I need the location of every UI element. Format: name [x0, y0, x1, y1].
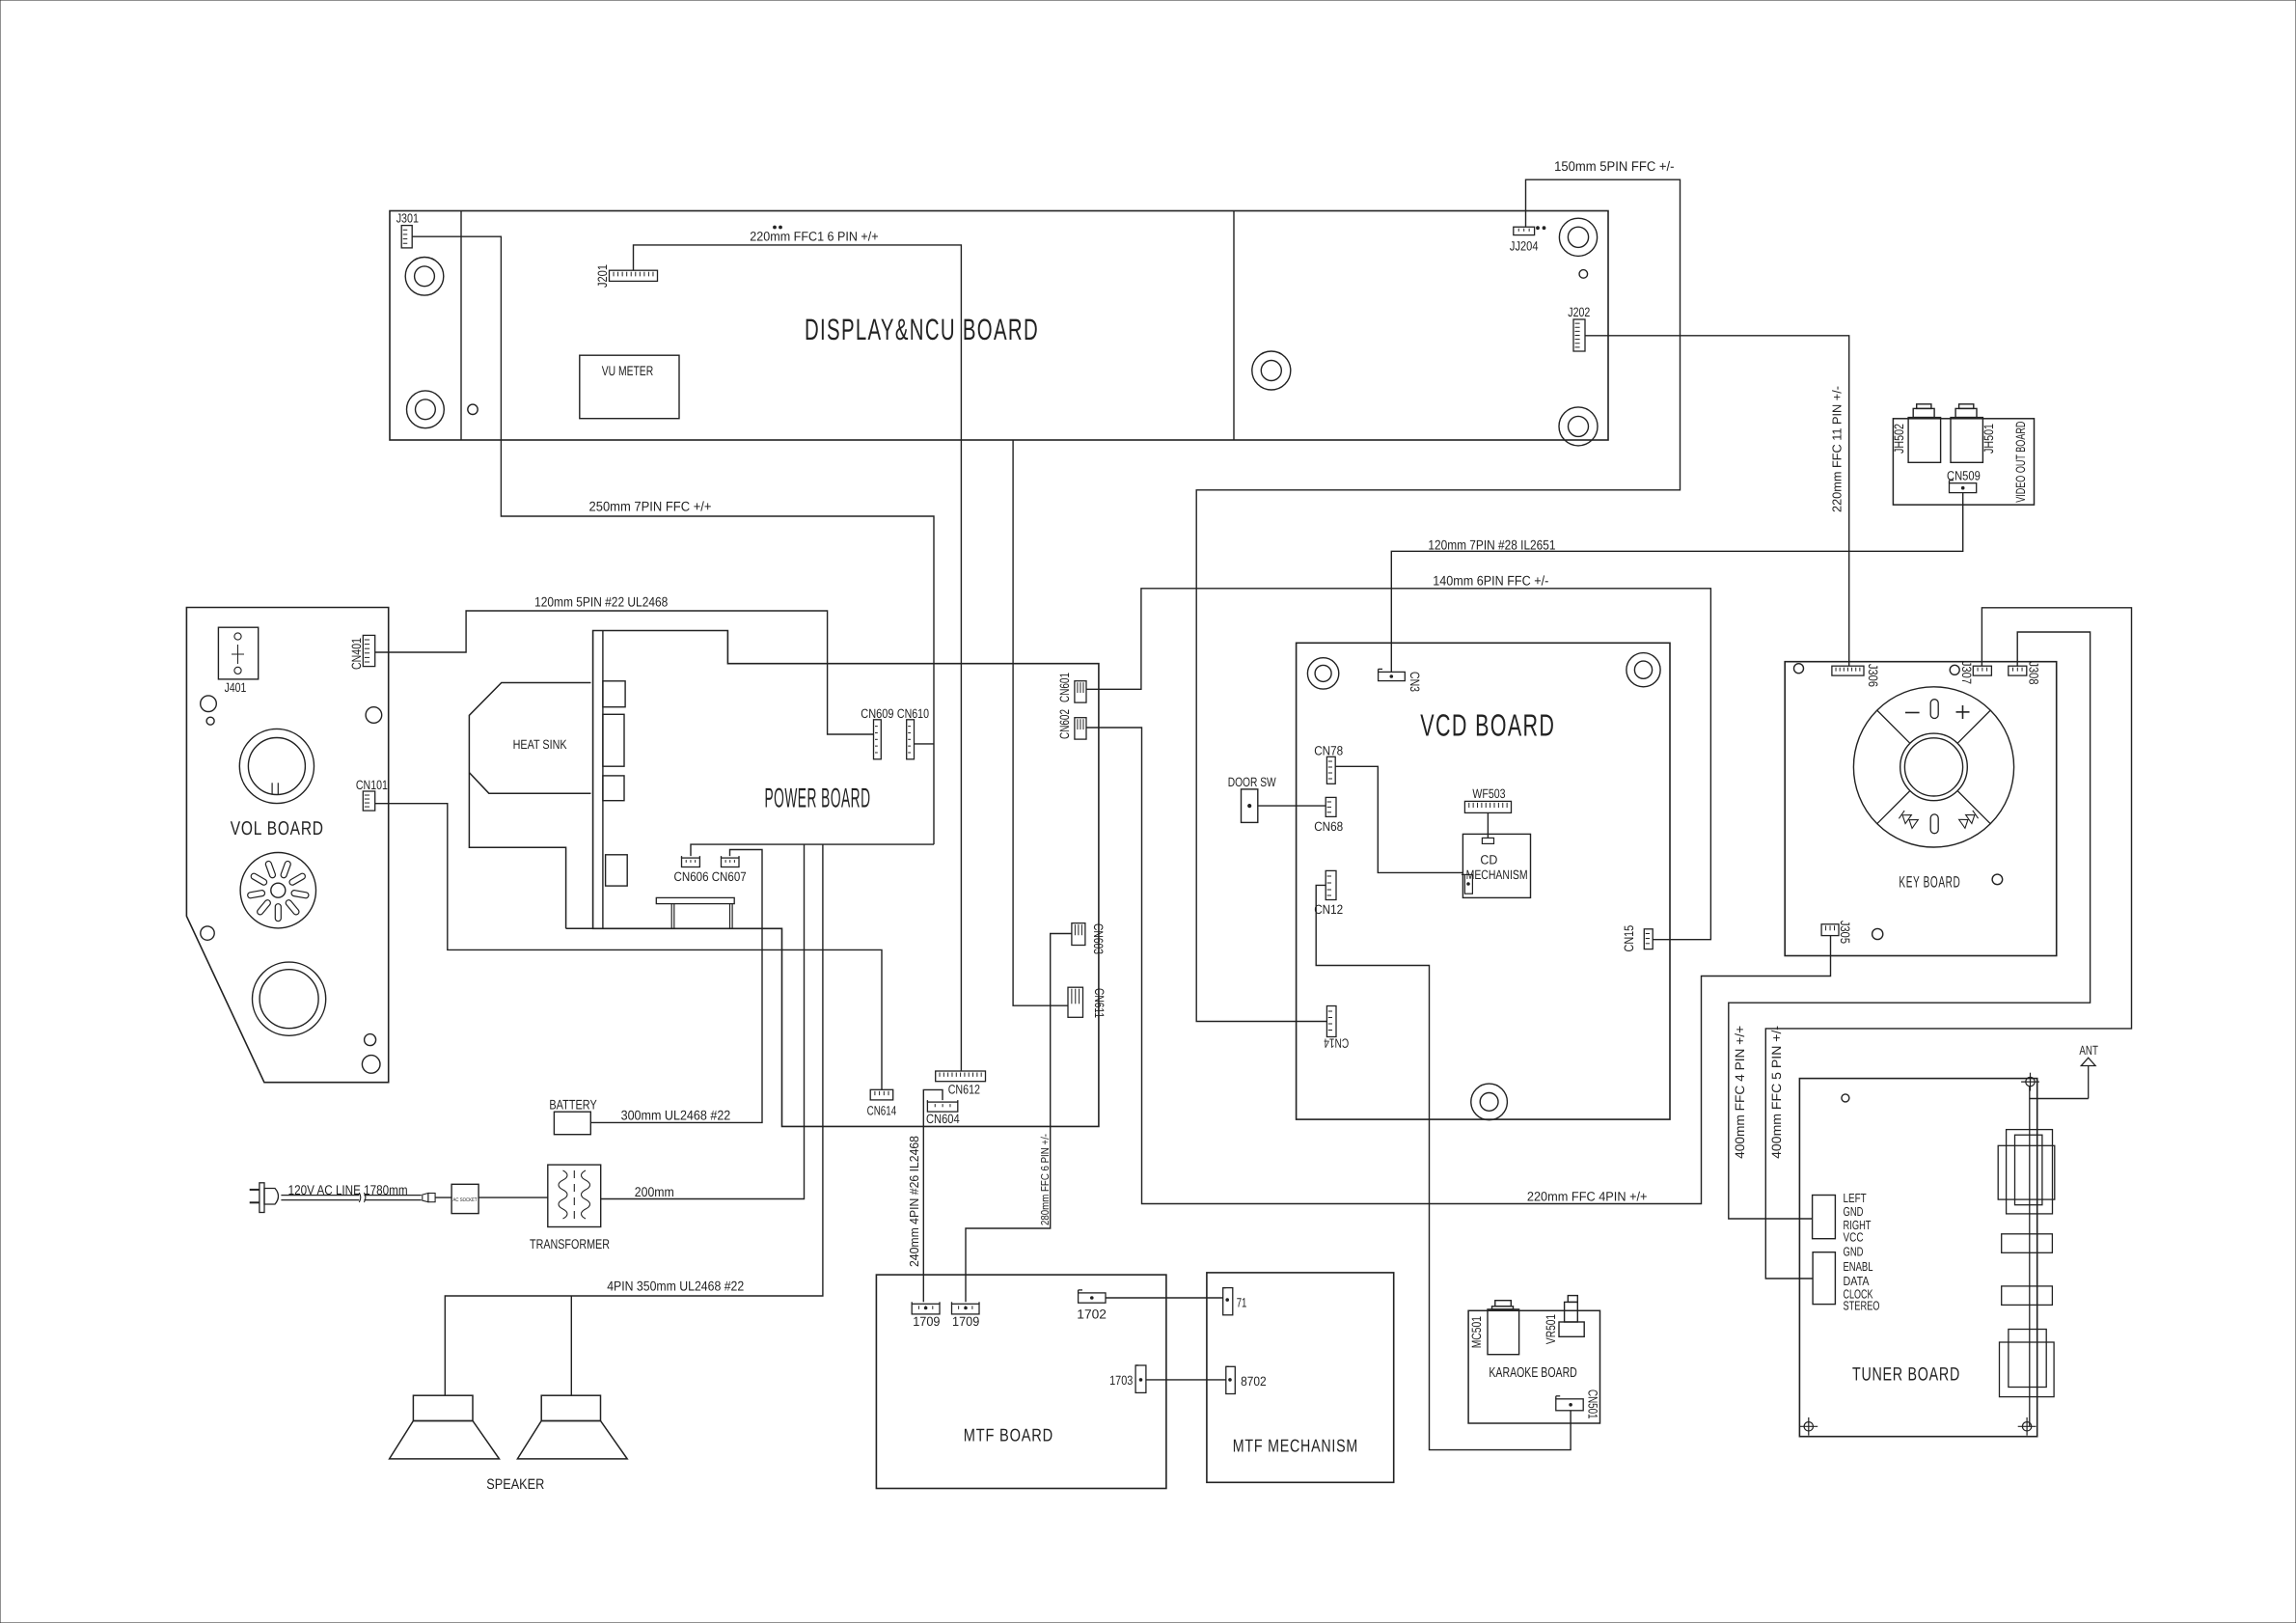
pad 4 (POWER BOARD left): [606, 855, 628, 886]
svg-text:J401: J401: [225, 680, 247, 695]
wire ANT - tuner rail: [2030, 1098, 2089, 1100]
hole (VOL bottom-right 1): [365, 1034, 376, 1046]
svg-text:CN501: CN501: [1586, 1389, 1600, 1419]
mounting hole (DISPLAY&NCU top-right): [1559, 218, 1597, 256]
svg-text:CN612: CN612: [948, 1083, 980, 1097]
wire J301 - CN610/CN606 (250mm 7PIN FFC +/+): [412, 236, 934, 844]
mounting hole (VCD bottom): [1471, 1084, 1508, 1120]
connector CN604: [927, 1102, 957, 1112]
svg-text:CN12: CN12: [1314, 902, 1343, 917]
key dial minus symbol: [1905, 712, 1920, 714]
board outline: VOL BOARD: [186, 608, 388, 1083]
svg-text:GND: GND: [1844, 1204, 1864, 1219]
svg-text:CN609: CN609: [861, 706, 893, 721]
wire CN602 - J305 (220mm FFC 4PIN +/+): [1086, 728, 1831, 1204]
svg-text:STEREO: STEREO: [1844, 1299, 1880, 1313]
svg-text:MECHANISM: MECHANISM: [1466, 867, 1528, 882]
svg-text:VOL BOARD: VOL BOARD: [231, 818, 324, 839]
svg-text:200mm: 200mm: [635, 1184, 674, 1199]
wire J308 - tuner box1 (400mm FFC 4 PIN +/+): [1729, 632, 2091, 1219]
hole small (DISPLAY&NCU right): [1579, 270, 1588, 279]
connector CN15: [1644, 929, 1653, 949]
AC SOCKET box: [451, 1184, 478, 1213]
svg-text:CD: CD: [1480, 853, 1497, 867]
wire speakers (4PIN 350mm UL2468 #22): [445, 844, 823, 1395]
transformer box: [548, 1165, 601, 1226]
connector CN601: [1075, 681, 1086, 702]
hole (VOL bottom-left): [201, 926, 214, 940]
tuner module bar 2: [2002, 1286, 2053, 1306]
wire CN3 - CN509 (120mm 7PIN #28 IL2651): [1391, 493, 1962, 673]
svg-text:CN101: CN101: [356, 778, 388, 792]
hole (KEY near J307): [1950, 665, 1959, 674]
connector CN501: [1556, 1399, 1583, 1411]
svg-text:CN606 CN607: CN606 CN607: [674, 869, 747, 884]
svg-text:TUNER BOARD: TUNER BOARD: [1852, 1364, 1960, 1386]
connector J307: [1973, 666, 1991, 675]
wire AC SOCKET - transformer: [478, 1197, 548, 1198]
box VU METER: [580, 355, 679, 419]
svg-text:LEFT: LEFT: [1844, 1191, 1867, 1205]
connector 1709 (second): [952, 1304, 980, 1314]
key dial top slot: [1930, 700, 1938, 719]
wire J307 - tuner box2 (400mm FFC 5 PIN +/-): [1765, 608, 2131, 1279]
svg-text:8702: 8702: [1241, 1374, 1267, 1389]
hole small (VOL left): [206, 717, 214, 725]
pin connector (CD MECHANISM left): [1464, 874, 1472, 894]
svg-text:150mm 5PIN FFC +/-: 150mm 5PIN FFC +/-: [1554, 158, 1675, 174]
wire J202 - J306 (220mm FFC 11 PIN +/-): [1585, 336, 1849, 666]
pad 2 (POWER BOARD left): [603, 714, 624, 766]
AC plug: [250, 1189, 260, 1191]
tuner connector box 2 (GND/ENABL/DATA/CLOCK/STEREO): [1813, 1252, 1835, 1305]
connector CN14: [1326, 1006, 1336, 1037]
svg-text:220mm FFC1 6 PIN +/+: 220mm FFC1 6 PIN +/+: [750, 230, 878, 244]
wire CN603 - 1709 second (280mm FFC 6 PIN +/-): [966, 934, 1072, 1303]
battery box: [554, 1112, 590, 1135]
svg-text:250mm 7PIN FFC +/+: 250mm 7PIN FFC +/+: [589, 499, 712, 514]
connector CN401: [363, 635, 374, 666]
svg-text:71: 71: [1237, 1296, 1247, 1310]
svg-text:VCC: VCC: [1844, 1230, 1864, 1245]
svg-text:ENABL: ENABL: [1844, 1259, 1873, 1274]
svg-text:CN601: CN601: [1057, 673, 1072, 702]
box CD MECHANISM: [1462, 834, 1530, 897]
connector J305: [1821, 924, 1839, 936]
connector J306: [1832, 666, 1864, 675]
jack MC501: [1488, 1309, 1519, 1355]
pad 1 (POWER BOARD left): [603, 681, 625, 707]
connector WF503: [1464, 801, 1511, 812]
hole (KEY right of text): [1992, 874, 2003, 885]
hole (VOL top-left): [201, 696, 217, 712]
svg-text:1709: 1709: [952, 1314, 979, 1329]
fiducial dots (DISPLAY&NCU): [1537, 227, 1540, 230]
svg-text:AC SOCKET: AC SOCKET: [453, 1197, 478, 1203]
wire node CN606 horizontal: [691, 844, 934, 856]
svg-text:VU METER: VU METER: [602, 363, 654, 378]
connector 1703: [1135, 1365, 1146, 1392]
jack JH501: [1951, 418, 1982, 463]
svg-text:280mm FFC 6 PIN +/-: 280mm FFC 6 PIN +/-: [1040, 1134, 1052, 1225]
svg-text:120mm 5PIN #22 UL2468: 120mm 5PIN #22 UL2468: [534, 594, 668, 610]
connector CN101: [363, 791, 374, 811]
svg-text:1702: 1702: [1077, 1307, 1107, 1321]
svg-text:WF503: WF503: [1472, 786, 1505, 801]
wire ferrule-AC SOCKET: [435, 1197, 451, 1198]
connector CN602: [1075, 718, 1086, 739]
connector 8702: [1226, 1366, 1236, 1393]
svg-text:MTF BOARD: MTF BOARD: [964, 1425, 1053, 1445]
svg-text:CN401: CN401: [349, 638, 364, 670]
svg-text:CN3: CN3: [1408, 672, 1422, 692]
svg-text:DOOR SW: DOOR SW: [1228, 775, 1276, 789]
connector 71: [1223, 1288, 1233, 1315]
transformer windings: [559, 1170, 567, 1219]
DOOR SW switch: [1242, 789, 1258, 823]
wire display board - CN611: [1013, 440, 1068, 1005]
connector CN609: [874, 720, 882, 759]
svg-text:CN78: CN78: [1314, 744, 1343, 758]
tuner inner rail: [2029, 1087, 2031, 1427]
svg-text:CN15: CN15: [1622, 925, 1636, 952]
connector CN3: [1379, 672, 1406, 680]
connector 1702: [1079, 1293, 1106, 1303]
tuner module bottom cluster: [2000, 1342, 2055, 1397]
connector CN614: [870, 1089, 893, 1100]
svg-text:GND: GND: [1844, 1245, 1864, 1259]
svg-text:300mm UL2468 #22: 300mm UL2468 #22: [621, 1108, 731, 1123]
hole (VOL right): [366, 707, 382, 724]
connector CN78: [1326, 756, 1335, 784]
svg-text:MTF MECHANISM: MTF MECHANISM: [1233, 1436, 1358, 1456]
board divider line left (DISPLAY&NCU): [460, 211, 462, 441]
mounting hole (DISPLAY&NCU bottom-right): [1559, 407, 1598, 446]
wire JJ204 - CN14 (150mm 5PIN FFC +/-): [1196, 179, 1680, 1021]
svg-text:140mm 6PIN FFC +/-: 140mm 6PIN FFC +/-: [1433, 573, 1548, 589]
wire speaker right drop: [570, 1296, 572, 1395]
heat sink outline: [469, 683, 590, 929]
wire CN78 - CD MECHANISM: [1335, 766, 1462, 872]
wire CN601 - CN15 (140mm 6PIN FFC +/-): [1086, 589, 1710, 940]
connector 1709 (first): [912, 1304, 940, 1314]
connector JJ204: [1514, 227, 1535, 234]
svg-text:KEY BOARD: KEY BOARD: [1899, 874, 1960, 892]
board outline: KEY BOARD: [1785, 662, 2057, 956]
wire CN607 - battery (300mm UL2468 #22): [590, 850, 762, 1123]
wire transformer-200mm to power board: [601, 844, 805, 1198]
connector CN606: [682, 858, 700, 867]
speaker right: [541, 1395, 600, 1420]
svg-text:4PIN 350mm UL2468 #22: 4PIN 350mm UL2468 #22: [607, 1279, 744, 1294]
wire CN401 - CN609 (120mm 5PIN #22 UL2468): [375, 611, 874, 734]
board outline: VCD BOARD: [1297, 643, 1670, 1119]
key dial rewind icon: [1899, 811, 1918, 829]
speaker left: [413, 1395, 473, 1420]
svg-text:220mm FFC 11 PIN +/-: 220mm FFC 11 PIN +/-: [1830, 386, 1845, 512]
board divider line right (DISPLAY&NCU): [1233, 211, 1235, 441]
tuner module bar 1: [2002, 1234, 2053, 1253]
connector CN603: [1072, 923, 1085, 946]
mounting hole (VCD top-left): [1307, 658, 1338, 689]
wire CN101 - CN614: [375, 804, 882, 1090]
svg-text:VR501: VR501: [1544, 1314, 1558, 1344]
svg-text:TRANSFORMER: TRANSFORMER: [530, 1236, 610, 1252]
connector CN509: [1950, 483, 1977, 493]
connector CN611: [1068, 987, 1083, 1017]
mounting hole (DISPLAY&NCU middle): [1252, 351, 1291, 390]
svg-text:400mm FFC 4 PIN +/+: 400mm FFC 4 PIN +/+: [1733, 1026, 1747, 1159]
volume knob (VOL BOARD): [239, 729, 314, 803]
svg-text:JJ204: JJ204: [1510, 239, 1539, 254]
hole (KEY top-left): [1794, 664, 1804, 674]
key dial bottom slot: [1930, 814, 1938, 834]
mounting hole (VCD top-right): [1626, 653, 1660, 687]
knob circle (VOL bottom): [253, 962, 326, 1035]
wire DOOR SW - CN68: [1258, 805, 1326, 807]
key dial (KEY BOARD): [1853, 687, 2013, 847]
svg-text:POWER BOARD: POWER BOARD: [765, 783, 871, 813]
svg-text:1709: 1709: [913, 1314, 940, 1329]
crosshair (TUNER top-right): [2026, 1077, 2035, 1086]
connector J201: [610, 270, 658, 281]
speaker grille circle (VOL BOARD): [240, 853, 315, 928]
wire CN12 - CN501: [1316, 885, 1571, 1449]
heat sink notch: [469, 773, 590, 794]
hole (KEY near J305): [1872, 928, 1883, 939]
svg-text:400mm FFC 5 PIN +/-: 400mm FFC 5 PIN +/-: [1769, 1026, 1784, 1159]
tuner module top cluster: [2007, 1130, 2053, 1214]
board outline: TUNER BOARD: [1799, 1079, 2036, 1437]
svg-text:KARAOKE BOARD: KARAOKE BOARD: [1489, 1365, 1576, 1381]
svg-text:J202: J202: [1568, 305, 1590, 319]
svg-text:J201: J201: [595, 264, 610, 288]
svg-text:240mm 4PIN #26 IL2468: 240mm 4PIN #26 IL2468: [907, 1136, 921, 1267]
svg-text:ANT: ANT: [2079, 1043, 2098, 1058]
board outline: KARAOKE BOARD: [1468, 1310, 1599, 1423]
bracket component (POWER BOARD bottom): [656, 897, 734, 903]
svg-text:J301: J301: [396, 211, 419, 226]
svg-text:CN610: CN610: [897, 706, 929, 721]
wire J201 - CN612 (220mm FFC1 6 PIN +/+): [634, 245, 962, 1071]
pad 3 (POWER BOARD left): [603, 776, 624, 801]
board outline: VIDEO OUT BOARD: [1893, 419, 2034, 505]
svg-text:J306: J306: [1866, 664, 1880, 687]
svg-text:J307: J307: [1959, 661, 1974, 684]
connector J301: [401, 226, 412, 248]
svg-text:CN604: CN604: [926, 1112, 960, 1126]
crosshair (TUNER bottom-left): [1804, 1422, 1813, 1431]
mounting hole (DISPLAY&NCU top-left): [405, 258, 444, 296]
board inner edge line (POWER BOARD left): [602, 631, 604, 929]
connector CN607: [722, 858, 740, 867]
connector CN612: [936, 1071, 986, 1082]
svg-text:JH501: JH501: [1982, 424, 1996, 454]
hole small (DISPLAY&NCU left): [468, 404, 478, 414]
crosshair (TUNER bottom-right): [2022, 1422, 2031, 1431]
svg-text:CN611: CN611: [1092, 988, 1107, 1018]
board outline: MTF MECHANISM: [1207, 1273, 1394, 1482]
heat sink base segment: [566, 927, 593, 929]
svg-text:DISPLAY&NCU BOARD: DISPLAY&NCU BOARD: [805, 313, 1039, 346]
hole small (TUNER top-left): [1842, 1094, 1849, 1102]
svg-text:CN509: CN509: [1947, 469, 1981, 483]
board outline: MTF BOARD: [876, 1275, 1166, 1488]
svg-text:VCD BOARD: VCD BOARD: [1420, 707, 1555, 742]
key dial ff icon: [1959, 811, 1979, 829]
svg-text:220mm FFC 4PIN +/+: 220mm FFC 4PIN +/+: [1527, 1190, 1648, 1204]
svg-text:MC501: MC501: [1469, 1316, 1484, 1348]
AC line cord: [281, 1195, 359, 1197]
hole (VOL bottom-right 2): [362, 1056, 380, 1074]
svg-text:CN68: CN68: [1314, 819, 1343, 834]
svg-text:JH502: JH502: [1892, 424, 1906, 454]
connector CN610: [907, 720, 915, 759]
wire 1702 - 71: [1106, 1297, 1223, 1299]
connector CN12: [1326, 870, 1336, 899]
svg-text:120mm 7PIN #28 IL2651: 120mm 7PIN #28 IL2651: [1428, 537, 1555, 553]
svg-text:CN14: CN14: [1324, 1036, 1349, 1051]
svg-text:CN602: CN602: [1057, 709, 1072, 739]
connector J308: [2009, 666, 2027, 675]
svg-text:J308: J308: [2026, 662, 2040, 685]
connector CN68: [1326, 797, 1336, 816]
wire 1703 - 8702: [1146, 1379, 1226, 1381]
pot VR501: [1559, 1322, 1584, 1336]
svg-text:SPEAKER: SPEAKER: [486, 1476, 544, 1493]
wire WF503-CD MECHANISM: [1487, 812, 1489, 838]
svg-text:HEAT SINK: HEAT SINK: [513, 737, 567, 752]
mounting hole (DISPLAY&NCU bottom-left): [407, 391, 445, 428]
svg-text:CN603: CN603: [1091, 923, 1106, 954]
jack JH502: [1908, 418, 1941, 463]
svg-text:BATTERY: BATTERY: [549, 1097, 597, 1113]
component J401: [218, 627, 258, 679]
board outline: DISPLAY&NCU BOARD: [390, 211, 1608, 441]
wire CN610 stub: [915, 743, 935, 745]
svg-text:J305: J305: [1838, 921, 1852, 944]
svg-text:CN614: CN614: [867, 1104, 897, 1118]
wire CN604 - 1709 first (240mm 4PIN #26 IL2468): [923, 1089, 943, 1302]
connector J202: [1573, 319, 1585, 351]
antenna symbol ANT: [2081, 1058, 2095, 1065]
AC cord ferrule: [423, 1194, 428, 1202]
svg-text:1703: 1703: [1109, 1373, 1133, 1388]
svg-text:VIDEO OUT BOARD: VIDEO OUT BOARD: [2013, 421, 2028, 502]
board outline: POWER BOARD: [593, 631, 1099, 1127]
tuner connector box 1 (LEFT/GND/RIGHT/VCC): [1813, 1196, 1836, 1239]
key dial plus symbol: [1956, 711, 1970, 713]
